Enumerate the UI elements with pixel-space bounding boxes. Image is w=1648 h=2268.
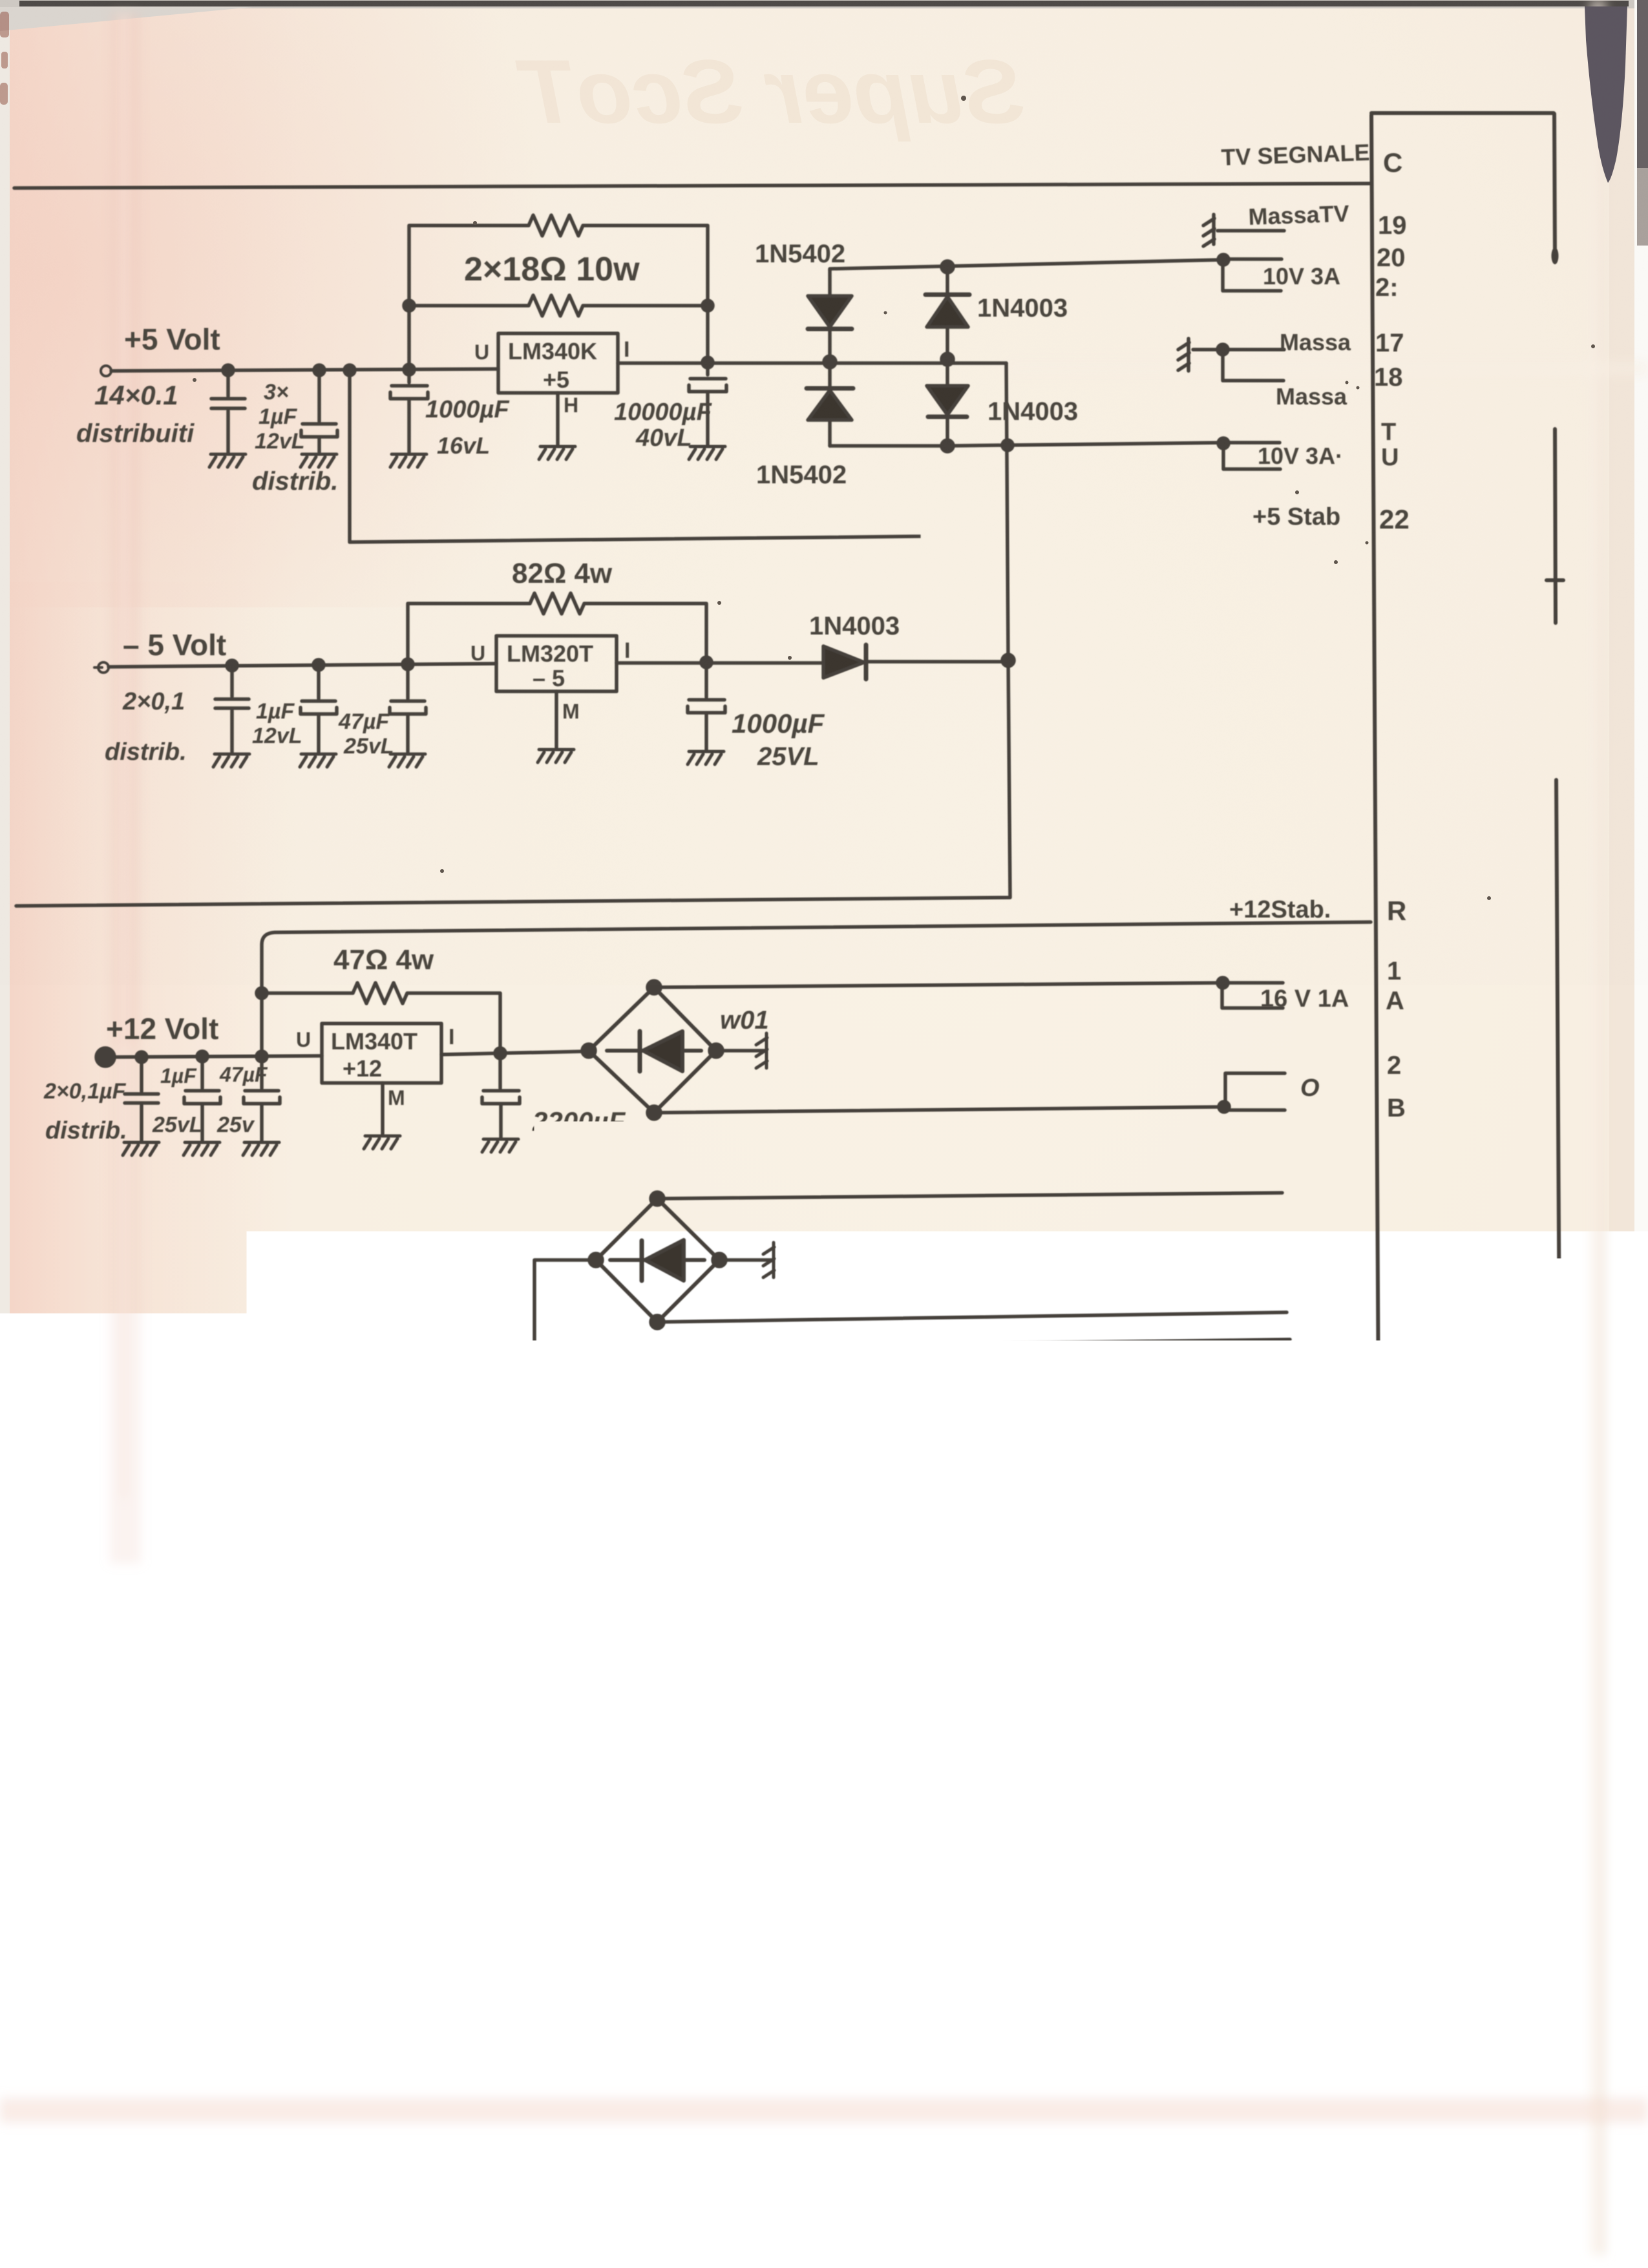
node junction dot	[713, 1254, 726, 1266]
node junction dot	[589, 1254, 602, 1266]
capacitor 3x 1uF 12VL	[228, 0, 337, 452]
node junction dot	[703, 300, 713, 311]
node junction dot	[701, 657, 712, 667]
diode 1N5402 lower	[807, 364, 853, 446]
wire +5 rail	[111, 369, 498, 371]
wire -5 rail	[109, 664, 496, 667]
wire W02 left leg down	[534, 1260, 596, 1349]
ground Massa 17-18	[1178, 339, 1189, 371]
pin bracket O 2-B	[1225, 1073, 1285, 1110]
resistor 2x18 ohm 10W top	[409, 215, 708, 370]
wire +5 stab drop	[350, 370, 1368, 542]
chassis mark W02	[763, 1243, 774, 1277]
diode 1N4003 lower	[927, 361, 968, 446]
node junction dot	[1002, 655, 1014, 666]
wire regulator output I	[618, 361, 1006, 365]
connector main vertical line	[1371, 115, 1383, 2228]
wire Q16 line	[0, 1814, 1291, 1823]
ground	[301, 454, 337, 467]
wire W01 output	[716, 1049, 765, 1053]
wire +7.5 Puls line	[534, 1339, 1290, 1349]
wire down from I line to -5 section	[16, 363, 1010, 906]
capacitor 1000uF 25VL horizontal	[419, 1391, 533, 1428]
resistor 82 ohm 4W loop	[408, 593, 706, 664]
node junction dot	[1218, 978, 1228, 988]
ground	[689, 446, 725, 459]
node junction dot	[314, 365, 324, 375]
capacitor 1000uF 25VL	[688, 663, 725, 750]
wire O line from W01	[654, 1107, 1223, 1113]
node junction dot	[136, 1052, 147, 1062]
wire: TV SEGNALE horizontal line	[14, 184, 1371, 188]
node junction dot	[1218, 438, 1229, 448]
bridge rectifier W01	[589, 987, 716, 1113]
node junction dot	[404, 364, 414, 375]
pin bracket 16V 1A	[1222, 983, 1283, 1008]
ground	[389, 754, 425, 767]
regulator U1 LM340K box	[498, 333, 618, 393]
wire LM320T output	[617, 661, 822, 665]
regulator U3 LM340T box	[322, 1024, 441, 1083]
wire Q12 line	[0, 1938, 1291, 1948]
ground	[209, 454, 246, 467]
wire Q9 line	[0, 2024, 1291, 2034]
diode 1N4003 -5V	[823, 645, 1006, 679]
resistor 2x18 ohm 10W bottom	[409, 295, 708, 316]
node junction dot	[703, 357, 713, 368]
node +12 Volt input terminal	[96, 1048, 114, 1066]
wire O line from W02	[657, 1312, 1287, 1322]
label CONNETTORE vertical	[1459, 1304, 1490, 1762]
capacitor 47uF 25V	[244, 1056, 280, 1140]
regulator U2 LM320T box	[496, 636, 617, 691]
connector right vertical segment 2	[1547, 429, 1563, 623]
wire diode top rail	[830, 260, 1223, 270]
node junction dot	[648, 1106, 660, 1119]
node junction dot	[651, 1192, 664, 1205]
node junction dot	[1002, 440, 1013, 450]
node junction dot	[942, 440, 953, 452]
resistor 47 ohm 4W	[262, 983, 500, 1053]
bridge rectifier W02	[596, 1199, 719, 1322]
wire Q13 line	[0, 1908, 1291, 1918]
node junction dot	[529, 1343, 540, 1355]
pin bracket 10V 3A pins 20-21	[1223, 259, 1282, 291]
top-right dark blotch	[1585, 6, 1627, 183]
node junction dot	[257, 988, 267, 998]
wire Massa TV pin 19	[1218, 229, 1284, 233]
wire +12 livell line	[534, 1398, 1285, 1409]
ground Massa TV	[1203, 215, 1214, 246]
wire LM340T +12 output	[441, 1051, 589, 1055]
node junction dot	[404, 300, 414, 311]
connector right vertical segment 1	[1554, 114, 1555, 257]
wire Q10 line	[0, 1996, 1291, 2005]
node junction dot	[403, 659, 413, 669]
diode 1N4003 upper	[925, 267, 969, 357]
pin M of LM320T	[555, 691, 558, 748]
wire W02 output	[719, 1258, 772, 1262]
chassis mark 1000uF return	[403, 1393, 414, 1427]
ground	[482, 1139, 518, 1152]
capacitor 10000uF 40VL	[689, 363, 726, 445]
node junction dot	[313, 660, 324, 670]
ground	[184, 1142, 220, 1155]
ground	[538, 750, 574, 762]
wire +12 Stab line	[262, 922, 1371, 1056]
capacitor 14x0.1 distribuiti	[211, 370, 245, 452]
capacitor 2x0.1uF distrib	[125, 1057, 158, 1140]
node +5 Volt input terminal	[101, 366, 111, 376]
node junction dot	[495, 1048, 505, 1058]
pin M of LM340T +12	[381, 1083, 385, 1134]
wire 9V 2A line	[657, 1193, 1282, 1199]
wire Q11 line	[0, 1967, 1291, 1977]
capacitor 1uF 12VL	[301, 665, 337, 752]
node -5 Volt input terminal	[94, 662, 109, 673]
ground	[243, 1142, 279, 1155]
chassis mark W01	[756, 1033, 767, 1068]
node junction dot	[942, 261, 953, 273]
ground	[539, 446, 575, 459]
ground	[688, 751, 724, 764]
node junction dot	[651, 1316, 664, 1328]
node junction dot	[824, 356, 836, 368]
wire 16V 1A line	[654, 983, 1222, 987]
wire +12 rail	[110, 1056, 322, 1057]
node junction dot	[227, 660, 237, 671]
node junction dot	[1218, 344, 1228, 355]
diode 1N5402 upper	[808, 270, 852, 359]
wire diode bottom rail	[830, 443, 1223, 446]
pin bracket 10V 3A pins T-U	[1223, 443, 1280, 469]
node junction dot	[942, 353, 953, 365]
ground	[364, 1136, 400, 1149]
wire Q15 line	[0, 1847, 1291, 1857]
red edge marks top-left	[0, 12, 9, 105]
bottom-left wrinkle streaks	[58, 2100, 918, 2236]
ground	[390, 454, 427, 467]
node junction dot	[648, 981, 660, 994]
wire dashed continuation	[533, 1355, 536, 1398]
connector top bracket line	[1371, 111, 1554, 115]
capacitor 1uF 25VL	[184, 1056, 220, 1140]
pin M of LM340K	[556, 393, 560, 445]
capacitor 1000uF 16VL	[390, 370, 428, 452]
wire Massa pin 17	[1193, 348, 1284, 352]
node junction dot	[1219, 1102, 1229, 1112]
capacitor 47uF 25VL	[390, 664, 426, 752]
node junction dot	[257, 1051, 267, 1062]
capacitor 2200uF 40VL	[482, 1054, 520, 1137]
node junction dot	[582, 1044, 595, 1057]
node junction dot	[529, 1403, 540, 1414]
node junction dot	[197, 1051, 207, 1062]
capacitor 2x0.1 distrib	[215, 666, 249, 752]
ground	[300, 754, 336, 767]
wire Massa pin 18	[1223, 350, 1284, 381]
node junction dot	[223, 365, 233, 375]
node junction dot	[710, 1044, 723, 1057]
ground	[123, 1142, 159, 1155]
node junction dot	[1218, 255, 1229, 265]
ground	[213, 754, 249, 767]
connector right vertical segment 3	[1556, 780, 1565, 2251]
node junction dot	[344, 365, 355, 375]
